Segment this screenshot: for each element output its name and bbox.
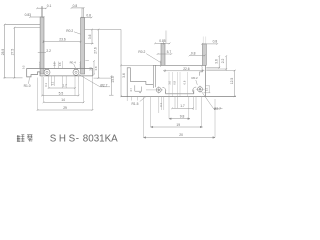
svg-text:R0.4: R0.4 — [70, 60, 76, 64]
svg-text:14: 14 — [61, 98, 65, 102]
svg-text:0.8: 0.8 — [73, 4, 78, 8]
svg-text:0.8: 0.8 — [52, 62, 56, 66]
part number CJK char 2 — [27, 135, 33, 142]
svg-text:2: 2 — [138, 91, 142, 93]
ext y78.1 to between-views dim — [94, 77, 112, 79]
plateau top edge — [153, 64, 205, 66]
svg-text:1.7: 1.7 — [62, 84, 67, 88]
svg-text:R0.2: R0.2 — [192, 76, 198, 80]
tower R2 step to pocket — [200, 72, 203, 76]
left wall and fin shelf — [127, 68, 153, 97]
dim 1.7 left view — [49, 87, 75, 89]
svg-text:SHS: SHS — [50, 133, 78, 143]
dim 28.9 vertical line — [4, 25, 6, 78]
dim 1.7 right view — [172, 107, 193, 109]
dim 3.6 right — [218, 56, 220, 68]
dim 19 — [151, 126, 203, 128]
svg-text:29: 29 — [63, 106, 67, 110]
part number CJK char 1 — [17, 135, 33, 142]
boss RB1 — [156, 87, 161, 92]
tower L2 body — [81, 18, 85, 75]
dim 0.85 line — [155, 42, 170, 45]
below base ext verticals right view — [127, 97, 215, 138]
svg-text:0.8: 0.8 — [191, 51, 196, 55]
svg-text:9.8: 9.8 — [180, 115, 185, 119]
svg-text:3.6: 3.6 — [122, 73, 126, 78]
svg-text:1.7: 1.7 — [180, 104, 185, 108]
svg-text:Ø2.7: Ø2.7 — [214, 107, 221, 111]
svg-text:Ø2.7: Ø2.7 — [100, 83, 107, 87]
center recess bottom — [166, 90, 194, 94]
dim 3.6 vertical — [91, 30, 93, 44]
leader R0.2 left view — [74, 32, 81, 34]
bottom edge and ground line — [121, 96, 236, 98]
svg-text:0.1: 0.1 — [159, 102, 163, 106]
svg-text:-: - — [76, 133, 79, 143]
plateau left edges — [153, 65, 155, 88]
svg-text:8031KA: 8031KA — [83, 133, 118, 143]
svg-text:3.6: 3.6 — [167, 80, 171, 84]
dim 23.6 line — [43, 40, 80, 43]
ext y60.6 right of tower L2 — [85, 60, 89, 62]
tower L2 serration — [79, 62, 82, 68]
bottom connector of left dims — [4, 77, 23, 79]
right side ext top — [85, 29, 121, 31]
tower R2 — [203, 44, 207, 65]
dim 12.5 right — [234, 71, 236, 97]
boss RB2 pocket — [193, 87, 197, 93]
svg-text:0.6: 0.6 — [183, 80, 187, 84]
svg-text:0.1: 0.1 — [47, 4, 52, 8]
dim 27.6 vertical — [97, 30, 99, 79]
svg-text:0.8: 0.8 — [213, 40, 218, 44]
ext y43.7 — [85, 43, 94, 45]
svg-text:5.5: 5.5 — [59, 91, 64, 95]
dim 0.8 upper line — [72, 7, 84, 9]
svg-text:2.2: 2.2 — [221, 59, 225, 64]
svg-text:0.5: 0.5 — [21, 65, 25, 69]
tower R1 serration — [159, 61, 162, 67]
leader R1.0 — [29, 78, 30, 84]
svg-text:0.83: 0.83 — [25, 13, 32, 17]
svg-text:R0.2: R0.2 — [66, 29, 73, 33]
svg-text:13.9: 13.9 — [111, 76, 115, 83]
boss RB1 pocket — [162, 87, 165, 92]
label dia 2.7 right view — [202, 92, 223, 109]
leader R1.5 — [140, 97, 146, 102]
right ext horizontals — [206, 68, 235, 71]
dim 0.1 line — [37, 7, 46, 9]
dim 20 — [144, 137, 216, 139]
leader R0.4 — [74, 64, 76, 68]
base outline left view — [27, 69, 93, 77]
dim vertical x94 — [93, 61, 95, 75]
svg-text:27.5: 27.5 — [11, 49, 15, 56]
svg-text:0.8: 0.8 — [173, 80, 177, 84]
svg-text:12.5: 12.5 — [230, 78, 234, 85]
dim vertical B between views — [120, 29, 122, 96]
dim 13.9 vertical A — [109, 76, 114, 95]
leader R0.2 boss — [196, 80, 198, 85]
svg-text:0.8: 0.8 — [86, 14, 91, 18]
svg-text:3.1: 3.1 — [51, 81, 55, 85]
ext verticals through plateau — [169, 72, 188, 97]
svg-text:R0.2: R0.2 — [138, 50, 145, 54]
svg-text:0.6: 0.6 — [58, 62, 62, 66]
leader R0.2 right view — [146, 54, 161, 63]
dim 5.5 — [42, 95, 79, 97]
tower R1 — [161, 43, 165, 65]
boss B2 left view — [73, 69, 79, 75]
micro dim right of right edge — [204, 86, 211, 93]
tower L1 serration — [38, 62, 41, 68]
svg-text:2.2: 2.2 — [46, 49, 51, 53]
svg-text:5.7: 5.7 — [167, 50, 172, 54]
svg-text:22.6: 22.6 — [183, 67, 190, 71]
svg-text:0.1: 0.1 — [44, 82, 48, 86]
boss RB2 — [198, 87, 203, 92]
dim 2.2 line — [38, 52, 46, 54]
svg-text:23.6: 23.6 — [59, 38, 66, 42]
dim 5.7 line — [158, 53, 172, 55]
svg-text:0.85: 0.85 — [159, 39, 166, 43]
tower L1 body — [40, 17, 44, 74]
below base ext verticals — [38, 76, 93, 110]
tower R2 serration — [201, 65, 204, 71]
svg-text:20: 20 — [179, 133, 183, 137]
svg-text:3.6: 3.6 — [214, 59, 218, 64]
dim 29 — [38, 109, 93, 111]
svg-text:R1.5: R1.5 — [132, 102, 139, 106]
dim 27.5 top extension line — [14, 27, 44, 29]
svg-text:4.7: 4.7 — [129, 87, 133, 91]
dimension end ticks — [4, 7, 236, 111]
label dia 2.7 left view — [79, 75, 110, 87]
tower R2 tip wisps — [203, 37, 206, 44]
fin slot — [135, 85, 142, 91]
between tower ext verticals — [55, 61, 63, 69]
tower R1 tip extension wisps — [165, 31, 167, 44]
svg-text:3.6: 3.6 — [88, 34, 92, 39]
svg-text:28.9: 28.9 — [1, 49, 5, 56]
dim 14 — [44, 101, 84, 103]
dim 0.8 lower right line — [190, 54, 205, 56]
right edge — [205, 65, 207, 96]
svg-text:19: 19 — [176, 123, 180, 127]
dim 0.83 line — [30, 16, 44, 18]
dim 28.9 top extension line — [5, 23, 41, 25]
svg-text:27.6: 27.6 — [94, 47, 98, 54]
dim 27.5 vertical line — [13, 28, 15, 78]
base bottom mid edge — [40, 75, 93, 77]
dim 22.6 line — [163, 70, 204, 73]
boss B1 left view — [44, 69, 50, 75]
dim 0.8 top right line — [202, 43, 217, 45]
tower L1 pin tip — [41, 6, 42, 17]
tower L2 pin tip — [82, 8, 83, 18]
svg-text:R1.0: R1.0 — [24, 84, 31, 88]
dim 9.8 — [169, 118, 190, 120]
dim 2.2 right — [225, 56, 227, 71]
svg-text:0.8: 0.8 — [94, 66, 98, 70]
dim 0.8 lower line — [81, 17, 92, 19]
svg-text:3.1: 3.1 — [204, 87, 208, 91]
